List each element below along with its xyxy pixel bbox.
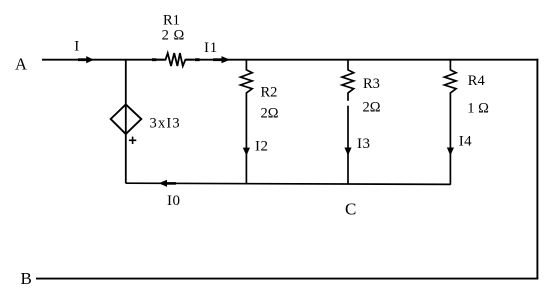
svg-text:R1: R1 xyxy=(163,13,180,29)
svg-text:I: I xyxy=(74,39,79,55)
svg-text:2 Ω: 2 Ω xyxy=(162,28,185,44)
dependent source 3xI3 branch wire xyxy=(125,60,127,184)
svg-text:I4: I4 xyxy=(459,133,473,149)
resistor R2 xyxy=(241,60,279,184)
wire right vertical xyxy=(536,59,538,280)
svg-text:A: A xyxy=(15,55,27,74)
svg-text:B: B xyxy=(21,269,32,288)
svg-text:2Ω: 2Ω xyxy=(261,105,279,121)
svg-text:2Ω: 2Ω xyxy=(363,99,381,115)
wire R1 to top-right corner xyxy=(186,59,539,61)
current arrow I1 xyxy=(204,40,230,63)
plus sign xyxy=(129,137,136,144)
resistor R3 xyxy=(342,60,381,184)
svg-text:3xI3: 3xI3 xyxy=(150,116,181,132)
svg-text:R2: R2 xyxy=(261,85,278,101)
current arrow I3 xyxy=(344,136,370,155)
wire bottom B xyxy=(36,278,538,280)
current arrow I0 xyxy=(159,180,181,209)
wire top-left segment A to R1 xyxy=(42,59,165,61)
resistor R1 xyxy=(157,13,194,67)
current arrow I2 xyxy=(243,139,269,156)
current arrow I xyxy=(74,39,94,64)
svg-text:C: C xyxy=(345,200,356,219)
svg-text:R4: R4 xyxy=(468,73,486,89)
resistor R1 lead overlap right xyxy=(195,58,200,61)
resistor R4 xyxy=(444,60,489,185)
svg-text:I1: I1 xyxy=(204,40,218,56)
svg-text:I2: I2 xyxy=(255,139,269,155)
svg-text:I0: I0 xyxy=(167,193,181,209)
svg-text:I3: I3 xyxy=(357,136,371,152)
current arrow I4 xyxy=(447,133,472,155)
dependent source diamond xyxy=(111,104,181,144)
svg-text:1 Ω: 1 Ω xyxy=(467,100,489,116)
resistor R1 lead overlap left xyxy=(152,58,157,61)
wire bottom middle (node C) xyxy=(126,183,451,184)
svg-text:R3: R3 xyxy=(363,76,380,92)
